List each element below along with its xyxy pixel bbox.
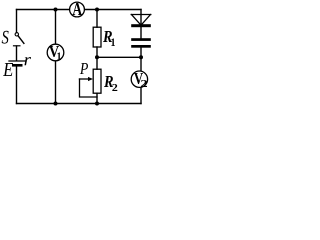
wire V2 bottom to bottom bus [140,87,142,103]
node dot mid-left (R1/R2 junction) [95,55,99,59]
wire left branch (top to switch) [16,10,18,33]
wire R2 to bottom bus [96,93,98,103]
wire bottom bus [17,103,142,105]
wire switch to battery [16,46,18,60]
capacitor C [131,38,151,48]
label R of R1 [103,31,112,42]
rheostat wiper P arrow [80,77,98,97]
rheostat R2 [93,69,101,93]
label r (internal resistance) [25,57,32,65]
diode D [131,15,151,28]
resistor R1 [93,27,101,47]
node dot bottom R2 [95,102,99,106]
voltmeter V1 branch wire upper [55,10,57,45]
voltmeter V2 circle [131,71,147,87]
wire battery to bottom-left corner [16,67,18,104]
wire node to V2 (horizontal connector) [97,56,141,58]
label R of R2 [104,76,113,87]
node dot top-right (R1 tap) [95,8,99,12]
voltmeter V1 branch wire lower [55,61,57,104]
label subscript 1 of R1 [111,39,115,47]
wire right branch top corner to diode [140,10,142,25]
label E (emf) [3,63,13,76]
ammeter A circle [70,2,85,17]
label P (wiper) [80,63,88,74]
switch S [14,33,24,46]
node dot top-left (V1 tap) [54,8,58,12]
wire top bus [17,9,142,11]
label V of V2 [134,73,143,84]
wire diode to capacitor [140,27,142,38]
battery E r [9,61,26,67]
label V of V1 [49,46,59,57]
wire capacitor to voltmeter V2 [140,48,142,72]
label S (switch) [2,31,9,44]
label A (ammeter) [73,3,83,15]
node dot bottom V1 [54,102,58,106]
node dot mid-right (V2 tap) [139,55,143,59]
voltmeter V1 circle [47,44,64,61]
label subscript 2 of V2 [141,80,147,87]
label subscript 1 of V1 [57,53,61,61]
label subscript 2 of R2 [112,84,117,91]
wire R1 to node [96,47,98,69]
resistor R1 branch wire upper [96,10,98,28]
